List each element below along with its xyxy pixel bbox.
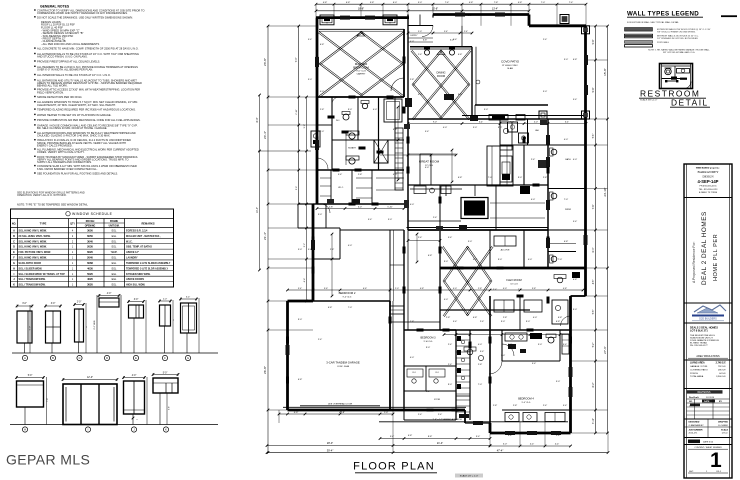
svg-text:3020: 3020 bbox=[87, 283, 93, 287]
svg-text:6'-8": 6'-8" bbox=[423, 40, 428, 42]
svg-text:3'-4": 3'-4" bbox=[186, 297, 191, 299]
svg-text:15'-8": 15'-8" bbox=[603, 68, 607, 76]
bedroom3 closets bbox=[404, 390, 456, 392]
svg-text:OVER 6'-0" IN WIDTH. ALL BEAMS: OVER 6'-0" IN WIDTH. ALL BEAMS PER PLAN. bbox=[37, 67, 93, 71]
svg-text:2'-0": 2'-0" bbox=[77, 302, 82, 304]
svg-text:FRAME: FRAME bbox=[110, 220, 119, 223]
svg-text:FIELD VERIFICATION.: FIELD VERIFICATION. bbox=[37, 90, 64, 94]
svg-text:GREAT ROOM: GREAT ROOM bbox=[419, 160, 440, 164]
svg-text:EGL: EGL bbox=[112, 284, 117, 287]
svg-text:6'-6": 6'-6" bbox=[363, 288, 367, 290]
svg-text:9'-0" CLG: 9'-0" CLG bbox=[356, 71, 366, 73]
svg-text:A: A bbox=[24, 356, 26, 360]
svg-text:4'-8": 4'-8" bbox=[469, 2, 474, 4]
svg-text:2040: 2040 bbox=[87, 256, 93, 260]
linen bbox=[562, 334, 569, 354]
svg-text:4'-0": 4'-0" bbox=[473, 259, 478, 261]
svg-text:BD. SELF CLOSING 20 MIN. DOOR: BD. SELF CLOSING 20 MIN. DOOR AT HOUSE /… bbox=[37, 126, 108, 130]
svg-text:EGL: EGL bbox=[112, 230, 117, 233]
svg-text:4'-0": 4'-0" bbox=[320, 91, 325, 93]
window elevations row 2 ground line bbox=[10, 424, 218, 426]
svg-text:5'-4": 5'-4" bbox=[563, 405, 568, 407]
svg-text:SGL.HUNG VINYL WDW.: SGL.HUNG VINYL WDW. bbox=[19, 257, 48, 260]
svg-text:6'-8": 6'-8" bbox=[320, 44, 325, 46]
linen ladder strip bbox=[395, 128, 403, 190]
right extension lines bbox=[586, 25, 608, 27]
svg-text:9'-0": 9'-0" bbox=[348, 131, 353, 133]
svg-text:5'-4": 5'-4" bbox=[573, 221, 578, 223]
svg-text:39'-4": 39'-4" bbox=[327, 448, 334, 452]
legend bar 2 bbox=[625, 34, 653, 38]
svg-text:1'-0": 1'-0" bbox=[384, 412, 389, 414]
entry steps bbox=[408, 37, 433, 39]
svg-text:6'-8": 6'-8" bbox=[428, 255, 433, 257]
svg-text:D: D bbox=[13, 246, 15, 249]
svg-text:EGL: EGL bbox=[112, 246, 117, 249]
svg-text:5020: 5020 bbox=[87, 272, 93, 276]
svg-text:TEMPERED GLAZING REQUIRED PER: TEMPERED GLAZING REQUIRED PER IRC R308.4… bbox=[37, 108, 136, 112]
svg-text:9'-0" CLG: 9'-0" CLG bbox=[522, 402, 531, 404]
svg-text:1/4"=1': 1/4"=1' bbox=[722, 433, 729, 435]
svg-text:3'-0": 3'-0" bbox=[468, 241, 473, 243]
svg-text:SCALE 1/4" = 1'-0": SCALE 1/4" = 1'-0" bbox=[460, 475, 479, 478]
svg-text:3'-10": 3'-10" bbox=[593, 418, 595, 424]
svg-text:7'-0": 7'-0" bbox=[558, 259, 563, 261]
svg-text:7'-0": 7'-0" bbox=[488, 177, 493, 179]
svg-text:6'-4": 6'-4" bbox=[479, 121, 483, 123]
svg-text:792 S.F.: 792 S.F. bbox=[718, 366, 726, 368]
svg-text:PORCH: PORCH bbox=[690, 373, 698, 375]
svg-text:9'-0": 9'-0" bbox=[298, 319, 303, 321]
svg-text:24'-10": 24'-10" bbox=[603, 187, 607, 196]
title block: logo bbox=[684, 322, 732, 324]
svg-text:4'-8": 4'-8" bbox=[420, 288, 424, 290]
svg-text:EGL: EGL bbox=[112, 257, 117, 260]
hall line y322 bbox=[390, 321, 440, 323]
svg-text:5'-4": 5'-4" bbox=[444, 31, 448, 33]
svg-text:5'-0": 5'-0" bbox=[30, 326, 32, 331]
svg-text:WALL TYPES LEGEND: WALL TYPES LEGEND bbox=[627, 11, 699, 18]
svg-text:4'-0": 4'-0" bbox=[534, 121, 538, 123]
pantry dark blob bbox=[520, 186, 530, 194]
svg-text:3'-4": 3'-4" bbox=[476, 436, 481, 438]
svg-text:FOR EXTERIOR WALL SEE TYPICAL: FOR EXTERIOR WALL SEE TYPICAL WALL DETAI… bbox=[627, 21, 680, 24]
master bedroom ceiling diamond lattice bbox=[319, 32, 404, 97]
right strip toilet 1 bbox=[551, 149, 557, 155]
svg-text:14'-4": 14'-4" bbox=[256, 207, 259, 213]
kitchen back counter bbox=[408, 220, 461, 222]
svg-text:2'-4": 2'-4" bbox=[464, 31, 468, 33]
patio left boundary bbox=[461, 26, 463, 47]
svg-text:21'-4": 21'-4" bbox=[437, 442, 443, 445]
svg-text:- ALL PER 2009 IRC AND LOCAL A: - ALL PER 2009 IRC AND LOCAL AMENDMENTS bbox=[41, 42, 100, 46]
svg-text:PROVIDE COMBUSTION AIR PER MEC: PROVIDE COMBUSTION AIR PER MECHANICAL CO… bbox=[37, 118, 141, 122]
svg-text:4'-0": 4'-0" bbox=[410, 357, 415, 359]
svg-text:4'-0": 4'-0" bbox=[533, 317, 538, 319]
restroom fixtures lower bbox=[671, 77, 677, 80]
window schedule table bbox=[11, 209, 174, 287]
svg-text:2'-4": 2'-4" bbox=[543, 405, 548, 407]
svg-text:5'-4": 5'-4" bbox=[573, 99, 578, 101]
svg-text:7'-0": 7'-0" bbox=[541, 2, 546, 4]
svg-text:4'-0": 4'-0" bbox=[418, 94, 423, 96]
svg-text:C: C bbox=[79, 356, 81, 360]
master bedroom right wall bbox=[403, 29, 405, 97]
svg-text:EGRESS B.R. 2,3,4: EGRESS B.R. 2,3,4 bbox=[126, 230, 148, 233]
svg-text:OPENING: OPENING bbox=[85, 226, 96, 228]
svg-text:PWDR: PWDR bbox=[565, 209, 572, 211]
svg-text:4'-0": 4'-0" bbox=[393, 174, 398, 176]
svg-text:KITCHEN SINK WDW.: KITCHEN SINK WDW. bbox=[126, 273, 151, 276]
svg-text:2'-4": 2'-4" bbox=[556, 435, 561, 437]
svg-text:6'-8": 6'-8" bbox=[556, 321, 561, 323]
svg-text:4'-8": 4'-8" bbox=[563, 288, 567, 290]
svg-text:CODES. VERIFY WITH LOCAL UTILI: CODES. VERIFY WITH LOCAL UTILITY. bbox=[37, 150, 85, 154]
svg-text:28'-0": 28'-0" bbox=[327, 442, 333, 445]
exterior wall: patio step to right bbox=[528, 15, 531, 26]
svg-text:13'-4": 13'-4" bbox=[492, 8, 498, 11]
top extension lines bbox=[315, 4, 317, 17]
svg-text:2'-0": 2'-0" bbox=[294, 412, 299, 414]
svg-text:3'-0": 3'-0" bbox=[51, 303, 56, 305]
exterior wall: patio top bbox=[433, 13, 529, 16]
svg-text:7'-6": 7'-6" bbox=[592, 204, 595, 209]
powder bath fixtures center bbox=[467, 349, 473, 355]
svg-text:LIVING AREA: LIVING AREA bbox=[690, 362, 705, 365]
svg-text:6'-8": 6'-8" bbox=[558, 317, 563, 319]
svg-text:2,748 S.F.: 2,748 S.F. bbox=[716, 362, 727, 365]
svg-text:3,900 S.F.: 3,900 S.F. bbox=[716, 376, 726, 378]
svg-text:5'-10": 5'-10" bbox=[387, 206, 393, 208]
svg-text:OF 4: OF 4 bbox=[716, 471, 722, 473]
svg-text:DO NOT SCALE THE DRAWINGS. USE: DO NOT SCALE THE DRAWINGS. USE ONLY WRIT… bbox=[37, 15, 133, 19]
svg-text:6'-8": 6'-8" bbox=[458, 177, 463, 179]
svg-text:7'-4": 7'-4" bbox=[295, 57, 298, 62]
svg-text:4'-0": 4'-0" bbox=[107, 293, 112, 295]
svg-text:4'-0": 4'-0" bbox=[478, 344, 483, 346]
svg-text:6'-0": 6'-0" bbox=[358, 206, 362, 208]
svg-text:4'-0": 4'-0" bbox=[444, 299, 449, 301]
svg-text:2'-4": 2'-4" bbox=[418, 54, 423, 56]
title block: address section bbox=[684, 359, 732, 361]
svg-text:STOR: STOR bbox=[434, 399, 440, 401]
svg-text:23'-8": 23'-8" bbox=[263, 58, 267, 66]
wic shelving bbox=[320, 177, 331, 179]
svg-text:TEMP.: TEMP. bbox=[111, 251, 118, 254]
svg-text:AREA TABULATIONS: AREA TABULATIONS bbox=[696, 355, 720, 358]
bath toilet 1 bbox=[343, 114, 349, 120]
svg-text:x: x bbox=[173, 320, 175, 321]
svg-text:3'-0": 3'-0" bbox=[388, 219, 393, 221]
svg-text:3'-0": 3'-0" bbox=[543, 91, 548, 93]
svg-text:6'-8": 6'-8" bbox=[564, 241, 569, 243]
bottom overall dim 2 bbox=[267, 452, 608, 454]
svg-text:2'-8": 2'-8" bbox=[446, 317, 451, 319]
svg-text:GENERAL NOTES: GENERAL NOTES bbox=[40, 5, 70, 9]
svg-text:x: x bbox=[86, 327, 88, 328]
master door arc bbox=[391, 78, 404, 91]
svg-text:W.I.C.: W.I.C. bbox=[126, 240, 133, 243]
svg-text:SGL.HUNG VINYL WDW.: SGL.HUNG VINYL WDW. bbox=[19, 246, 48, 249]
svg-text:9'-0": 9'-0" bbox=[348, 109, 353, 111]
svg-text:SCALE: SCALE bbox=[721, 428, 729, 431]
svg-text:K: K bbox=[13, 284, 15, 287]
left wall window C bbox=[311, 131, 320, 147]
legend bar 4 bbox=[625, 45, 653, 47]
svg-text:2'-8": 2'-8" bbox=[478, 364, 483, 366]
sliding door elevation I bbox=[63, 384, 117, 425]
svg-text:CARPET: CARPET bbox=[357, 72, 367, 75]
interior dim string y334.5 bbox=[444, 334, 570, 336]
svg-text:6'-4": 6'-4" bbox=[592, 247, 595, 252]
garage/house wall bbox=[389, 301, 391, 410]
svg-text:9'-0": 9'-0" bbox=[573, 309, 578, 311]
svg-text:7'-8": 7'-8" bbox=[494, 2, 499, 4]
svg-text:G: G bbox=[187, 356, 189, 360]
svg-text:SLDG.PATIO DOOR: SLDG.PATIO DOOR bbox=[19, 262, 42, 265]
breakfast nook lines bbox=[408, 153, 456, 155]
master top window B1 bbox=[320, 15, 334, 25]
svg-text:9'-0": 9'-0" bbox=[458, 94, 463, 96]
patio post mid-top bbox=[560, 15, 569, 24]
interior dim string y123.5 bbox=[408, 123, 586, 125]
svg-text:9'-0": 9'-0" bbox=[433, 121, 437, 123]
svg-text:AND STUCCO FINISH, U.N.O. ON P: AND STUCCO FINISH, U.N.O. ON PLANS. bbox=[37, 55, 88, 59]
interior vertical dim x417 bbox=[416, 234, 418, 262]
exterior wall: master wing top bbox=[316, 16, 409, 19]
svg-text:1: 1 bbox=[710, 449, 722, 472]
svg-text:COVERED PATIO: COVERED PATIO bbox=[690, 368, 708, 371]
dining apex triangle bbox=[437, 50, 445, 55]
svg-text:DESIGNED: DESIGNED bbox=[689, 422, 700, 424]
svg-text:2'-8": 2'-8" bbox=[543, 177, 548, 179]
interior wall x548 bbox=[547, 119, 549, 268]
svg-text:3050: 3050 bbox=[87, 229, 93, 233]
svg-text:DETAIL: DETAIL bbox=[671, 98, 709, 108]
veranda porch bbox=[404, 384, 490, 386]
svg-text:10'-8": 10'-8" bbox=[432, 8, 438, 11]
svg-text:M.BATH: M.BATH bbox=[348, 147, 356, 150]
svg-text:EGL: EGL bbox=[112, 273, 117, 276]
svg-text:10' CLG: 10' CLG bbox=[510, 284, 518, 286]
svg-text:W.I.C.: W.I.C. bbox=[338, 187, 344, 189]
svg-text:5'-4": 5'-4" bbox=[448, 237, 453, 239]
bedroom2 top wall bbox=[340, 229, 404, 231]
title block: sheet number bbox=[684, 444, 732, 446]
svg-text:OPERATION. VERIFY ALL R.O. WIT: OPERATION. VERIFY ALL R.O. WITH MFR. bbox=[17, 194, 67, 197]
svg-text:26'-8": 26'-8" bbox=[263, 366, 267, 374]
svg-text:4'-4": 4'-4" bbox=[555, 444, 560, 446]
patio bottom post bbox=[539, 111, 547, 119]
svg-text:WATER HEATER TO BE SET ON 18": WATER HEATER TO BE SET ON 18" PLATFORM I… bbox=[37, 113, 112, 117]
svg-text:5'-4": 5'-4" bbox=[338, 174, 343, 176]
svg-text:5'-0": 5'-0" bbox=[163, 372, 168, 374]
svg-text:2'-4": 2'-4" bbox=[418, 237, 423, 239]
svg-text:EGL: EGL bbox=[112, 267, 117, 270]
window elevation D (high transom) bbox=[99, 298, 119, 307]
svg-text:2'-4": 2'-4" bbox=[418, 414, 423, 416]
svg-text:4'-8": 4'-8" bbox=[593, 280, 595, 285]
right rooms below y268 bbox=[557, 277, 563, 283]
svg-text:W.C.: W.C. bbox=[336, 120, 341, 122]
svg-text:B: B bbox=[52, 356, 54, 360]
svg-text:3'-0": 3'-0" bbox=[308, 79, 313, 81]
svg-text:ABOVE 12": ABOVE 12" bbox=[126, 251, 139, 254]
svg-text:2'-8": 2'-8" bbox=[478, 288, 482, 290]
svg-text:3040: 3040 bbox=[87, 239, 93, 243]
svg-text:6020: 6020 bbox=[87, 250, 93, 254]
great room dim string y155 bbox=[380, 154, 456, 156]
window elevation K (transom) bbox=[153, 378, 178, 393]
svg-text:12' HIGH CONC.: 12' HIGH CONC. bbox=[502, 65, 519, 67]
svg-text:2'-8": 2'-8" bbox=[503, 317, 508, 319]
patio slab edge bbox=[475, 104, 548, 106]
exterior wall: garage left bbox=[286, 301, 289, 410]
patio bottom return (interior) bbox=[548, 118, 586, 120]
svg-text:4'-0": 4'-0" bbox=[132, 375, 137, 377]
svg-text:WINDOW SCHEDULE: WINDOW SCHEDULE bbox=[72, 212, 113, 216]
svg-text:GARAGE / STOR.: GARAGE / STOR. bbox=[690, 365, 708, 368]
svg-text:PH.(915) 555-0155: PH.(915) 555-0155 bbox=[699, 186, 717, 188]
svg-text:16/8 OVERHEAD DOOR: 16/8 OVERHEAD DOOR bbox=[328, 403, 353, 406]
svg-text:3'-6": 3'-6" bbox=[324, 288, 328, 290]
svg-text:9'-0": 9'-0" bbox=[426, 347, 431, 349]
svg-text:8'-8": 8'-8" bbox=[428, 436, 433, 438]
svg-text:9'-0": 9'-0" bbox=[448, 384, 453, 386]
svg-text:5'-6": 5'-6" bbox=[593, 134, 595, 139]
window elevations row 1 ground line bbox=[12, 352, 218, 354]
ink hotspots bbox=[444, 94, 454, 100]
svg-text:2'-4": 2'-4" bbox=[480, 321, 485, 323]
master bedroom header beam bbox=[319, 28, 404, 30]
svg-text:5'-0": 5'-0" bbox=[418, 31, 422, 33]
svg-text:6068: 6068 bbox=[87, 261, 93, 265]
svg-text:FXD. PICTURE VINYL WDW.: FXD. PICTURE VINYL WDW. bbox=[19, 251, 52, 254]
svg-text:ALCOVE: ALCOVE bbox=[501, 249, 510, 252]
window elevation A bbox=[17, 311, 32, 343]
svg-text:FLEX ROOM: FLEX ROOM bbox=[506, 278, 521, 282]
svg-text:BATH: BATH bbox=[565, 158, 571, 161]
svg-text:OBS. TEMP. AT BATHS: OBS. TEMP. AT BATHS bbox=[126, 246, 152, 249]
svg-text:4'-0": 4'-0" bbox=[348, 245, 353, 247]
svg-text:4'-4": 4'-4" bbox=[304, 278, 306, 283]
svg-text:DATE 6/14: DATE 6/14 bbox=[703, 441, 714, 444]
svg-text:2'-8": 2'-8" bbox=[320, 109, 325, 111]
svg-text:12345 GRANITE STORM DR.: 12345 GRANITE STORM DR. bbox=[690, 339, 720, 342]
left dim col 1 (outermost) bbox=[267, 26, 269, 453]
svg-text:C: C bbox=[13, 240, 15, 243]
svg-text:EGL: EGL bbox=[112, 235, 117, 238]
patio corner post top-right bbox=[582, 26, 590, 34]
master bath block walls bbox=[317, 96, 404, 98]
svg-text:JOB NUMBER: JOB NUMBER bbox=[689, 429, 703, 431]
entry dim string y33 bbox=[408, 32, 472, 34]
right strip toilet 2 bbox=[551, 193, 557, 199]
svg-text:TYPE: TYPE bbox=[40, 222, 47, 226]
kitchen nook wall with windows (under patio) bbox=[462, 115, 586, 117]
interior vertical dim x536 bbox=[535, 300, 537, 440]
svg-text:7/8" STUCCO FINISH ON OSB SHTN: 7/8" STUCCO FINISH ON OSB SHTNG. bbox=[657, 31, 696, 33]
svg-text:PROVIDE FIRESTOPPING AT ALL CE: PROVIDE FIRESTOPPING AT ALL CEILING LEVE… bbox=[37, 60, 100, 64]
svg-text:2'-4": 2'-4" bbox=[433, 217, 438, 219]
svg-text:PONY WALL: PONY WALL bbox=[657, 41, 670, 44]
svg-text:EGL: EGL bbox=[112, 240, 117, 243]
svg-text:9'-0": 9'-0" bbox=[526, 321, 531, 323]
svg-text:9'-0" CLG: 9'-0" CLG bbox=[343, 297, 352, 299]
bottom overall dim 1 bbox=[267, 445, 490, 447]
svg-text:4'-8": 4'-8" bbox=[518, 2, 523, 4]
svg-text:4'-0": 4'-0" bbox=[425, 167, 430, 169]
svg-text:PH: 915.555.0177: PH: 915.555.0177 bbox=[690, 345, 708, 347]
kitchen island (dark) bbox=[461, 198, 488, 219]
svg-text:EGL: EGL bbox=[112, 278, 117, 281]
svg-text:NO.: NO. bbox=[12, 223, 17, 226]
left wall window centerline bbox=[258, 150, 311, 152]
exterior wall: veranda porch bbox=[465, 422, 490, 424]
svg-text:SGL./ SLIDER WDW. W/ TRANS. AT: SGL./ SLIDER WDW. W/ TRANS. AT TOP bbox=[19, 273, 66, 276]
svg-text:BEDROOM 3: BEDROOM 3 bbox=[420, 337, 436, 340]
kitchen counter row bbox=[410, 188, 462, 190]
svg-text:2'-4": 2'-4" bbox=[448, 364, 453, 366]
svg-text:SHT.: SHT. bbox=[689, 471, 694, 473]
svg-text:SGL.HUNG VINYL WDW.: SGL.HUNG VINYL WDW. bbox=[19, 230, 48, 233]
svg-text:27'-6": 27'-6" bbox=[603, 346, 607, 354]
exterior wall: left middle bbox=[312, 204, 315, 301]
interior dim string y208 bbox=[317, 208, 404, 210]
svg-text:E-PASO TX 79936: E-PASO TX 79936 bbox=[699, 191, 718, 194]
window elevation J bbox=[124, 381, 145, 414]
svg-text:BEDROOM 4: BEDROOM 4 bbox=[518, 397, 534, 401]
svg-text:9'-0": 9'-0" bbox=[518, 177, 523, 179]
svg-text:4'-0": 4'-0" bbox=[410, 41, 415, 43]
left dim col short bbox=[259, 95, 261, 270]
svg-text:7'-0": 7'-0" bbox=[47, 398, 49, 402]
exterior wall: garage bottom + overhead door bbox=[288, 409, 466, 412]
exterior wall: bottom of bedroom wing bbox=[490, 432, 571, 435]
pantry tall cabinets bbox=[487, 146, 513, 186]
window elevation C bbox=[75, 309, 84, 342]
bath vanity circles bbox=[349, 133, 355, 139]
svg-text:SGL./ TRANSOM WDW.: SGL./ TRANSOM WDW. bbox=[19, 284, 46, 287]
svg-text:5'-4": 5'-4" bbox=[368, 219, 373, 221]
svg-text:SGL./ SLIDER WDW.: SGL./ SLIDER WDW. bbox=[19, 267, 43, 270]
right strip toilet 3 bbox=[551, 256, 557, 262]
foyer right wall bbox=[471, 47, 473, 119]
interior vertical dim x452 bbox=[451, 150, 453, 182]
foyer/dining ceiling lattice bbox=[412, 50, 470, 119]
svg-text:4030: 4030 bbox=[87, 266, 93, 270]
svg-text:6'-8": 6'-8" bbox=[573, 279, 578, 281]
svg-text:6'-8": 6'-8" bbox=[473, 317, 478, 319]
svg-text:2014-271: 2014-271 bbox=[689, 433, 699, 435]
bath toilet 2 bbox=[362, 103, 367, 108]
svg-text:4020: 4020 bbox=[87, 277, 93, 281]
svg-text:REVISIONS: REVISIONS bbox=[697, 391, 710, 394]
svg-text:3'-0": 3'-0" bbox=[564, 59, 569, 61]
svg-text:D: D bbox=[106, 356, 108, 360]
svg-text:EL PASO TEXAS: EL PASO TEXAS bbox=[690, 342, 707, 345]
master top window B2 bbox=[383, 15, 397, 25]
svg-text:x: x bbox=[137, 419, 138, 421]
svg-text:5'-4": 5'-4" bbox=[308, 249, 313, 251]
svg-text:7'-4": 7'-4" bbox=[445, 2, 450, 4]
svg-text:4-SEP-14P: 4-SEP-14P bbox=[698, 179, 719, 184]
bedroom2 closet bbox=[389, 230, 391, 301]
foyer top wall with columns bbox=[410, 46, 472, 48]
svg-text:3'-0": 3'-0" bbox=[484, 109, 489, 111]
svg-text:9'-0": 9'-0" bbox=[498, 127, 503, 129]
svg-text:5'-2": 5'-2" bbox=[593, 343, 595, 348]
